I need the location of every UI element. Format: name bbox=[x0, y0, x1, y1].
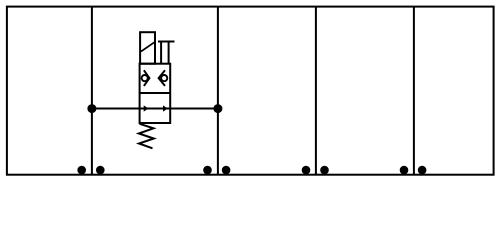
check seat right (ball in seat) bbox=[159, 70, 168, 86]
junction: bottom terminal dot 3a bbox=[302, 166, 311, 175]
solenoid coil actuator bbox=[140, 32, 155, 64]
flow-path arrows in lower position bbox=[144, 105, 168, 111]
junction: left wire junction bbox=[87, 104, 96, 113]
wire: vertical line 3 bbox=[315, 7, 317, 175]
return spring bbox=[139, 124, 154, 149]
manual override / pilot symbol bbox=[158, 42, 175, 64]
wire: vertical line 4 bbox=[413, 7, 415, 175]
valve V1 (solenoid-operated 2-position valve, spring return) bbox=[139, 32, 175, 148]
junction: right wire junction bbox=[213, 104, 222, 113]
junction: bottom terminal dot 2b bbox=[222, 166, 231, 175]
junction: bottom terminal dot 4b bbox=[418, 166, 427, 175]
junction: bottom terminal dot 1b bbox=[96, 166, 105, 175]
wire: vertical line 1 bbox=[91, 7, 93, 175]
wire: horizontal line through valve bbox=[92, 108, 218, 110]
check seat left (ball in seat) bbox=[142, 70, 150, 86]
wire: vertical line 2 bbox=[217, 7, 219, 175]
valve body (two stacked position squares) bbox=[140, 64, 171, 123]
junction: bottom terminal dot 1a bbox=[77, 166, 86, 175]
junction: bottom terminal dot 4a bbox=[400, 166, 409, 175]
junction: bottom terminal dot 2a bbox=[203, 166, 212, 175]
junction: bottom terminal dot 3b bbox=[320, 166, 329, 175]
